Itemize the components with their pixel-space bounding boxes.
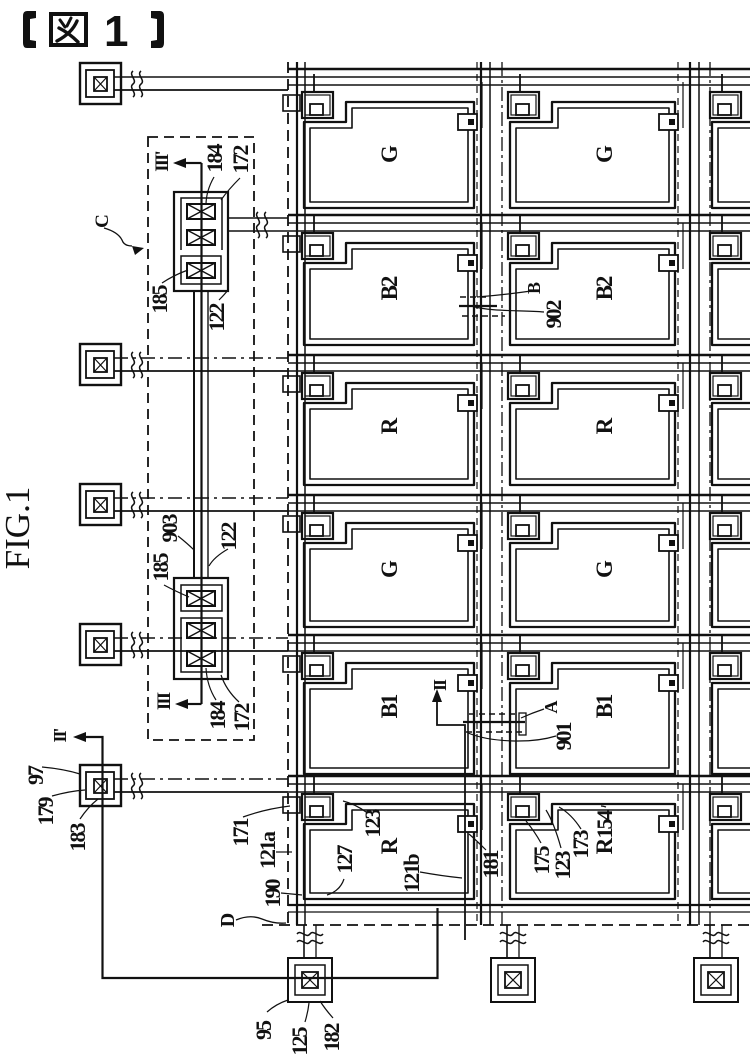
- gate pad (left, y=84): [80, 63, 121, 104]
- pixel colour label R row 3 col 2: [592, 417, 617, 434]
- label 185 (bottom structure): [148, 553, 189, 598]
- svg-text:C: C: [92, 215, 113, 228]
- pixel electrode 190 row 1 col 2 (G): [510, 102, 675, 208]
- TFT row 6 col 1: [283, 776, 333, 820]
- label II': [50, 728, 70, 742]
- pixel electrode 190 row 2 col 3 (B2): [712, 243, 750, 345]
- pixel colour label B1 row 5 col 2: [592, 694, 617, 718]
- TFT row 2 col 3: [710, 215, 741, 259]
- section line through column 2 (dash-dot): [501, 62, 503, 925]
- pixel colour label G row 1 col 1: [377, 145, 402, 163]
- data pad at x=310: [288, 958, 332, 1002]
- gate pad (left, y=786): [80, 765, 121, 806]
- label C: [92, 215, 144, 255]
- label 154: [592, 806, 617, 839]
- pixel colour label B1 row 5 col 1: [377, 694, 402, 718]
- label 902: [471, 300, 566, 329]
- svg-text:95: 95: [251, 1020, 276, 1040]
- svg-text:R: R: [592, 837, 617, 854]
- section line through column 3 (dash-dot): [709, 62, 711, 925]
- break symbol on lead y=786: [132, 773, 143, 799]
- TFT row 5 col 1: [283, 635, 333, 679]
- bottom gate band: [288, 905, 750, 912]
- figure title 図1: [23, 7, 164, 56]
- svg-text:172: 172: [228, 145, 253, 174]
- drain contact hole row 1 col 2: [659, 82, 683, 130]
- svg-text:D: D: [217, 913, 239, 927]
- gate pad (left, y=645): [80, 624, 121, 665]
- svg-text:173: 173: [568, 830, 593, 859]
- label III': [152, 152, 173, 172]
- label 123 (col2): [546, 810, 575, 880]
- label 182: [319, 1001, 344, 1052]
- pixel colour label R row 3 col 1: [377, 417, 402, 434]
- svg-text:185: 185: [148, 553, 173, 582]
- data lead stem for pad x=513: [507, 925, 519, 958]
- drain contact hole row 6 col 1: [458, 784, 482, 832]
- data lead stem for pad x=716: [710, 925, 722, 958]
- pixel-edge dotted line col 1: [476, 62, 478, 925]
- pixel colour label B2 row 2 col 2: [592, 276, 617, 300]
- label 172 (bottom): [221, 675, 254, 732]
- TFT row 3 col 1: [283, 355, 333, 399]
- data line 171 pair (left): [297, 62, 305, 925]
- svg-text:179: 179: [33, 797, 58, 826]
- TFT row 1 col 3: [710, 74, 741, 118]
- capacitor contact 184 box 3 (top structure): [187, 263, 215, 278]
- TFT row 5 col 3: [710, 635, 741, 679]
- gate line 123 row band 3: [288, 355, 750, 371]
- svg-text:122: 122: [204, 303, 229, 332]
- gate lead from pad y=786: [114, 779, 288, 792]
- section line III-III': [173, 158, 202, 709]
- region C boundary (dashed): [148, 137, 254, 740]
- storage capacitor structure (top, region C): [174, 192, 228, 291]
- TFT row 2 col 1: [283, 215, 333, 259]
- capacitor contact 184 box 3 (bottom structure): [187, 651, 215, 666]
- label 184 (bottom): [205, 668, 230, 730]
- pixel electrode 190 row 6 col 3 (R): [712, 804, 750, 899]
- svg-text:97: 97: [23, 765, 48, 785]
- pixel colour label R row 6 col 1: [377, 837, 402, 854]
- TFT row 4 col 2: [508, 495, 539, 539]
- label III: [154, 692, 175, 710]
- TFT row 2 col 2: [508, 215, 539, 259]
- gate line 122 row band 2: [288, 215, 750, 231]
- break symbol y=225: [257, 212, 268, 238]
- TFT row 3 col 3: [710, 355, 741, 399]
- label II: [430, 679, 450, 691]
- svg-text:121a: 121a: [255, 831, 280, 869]
- svg-text:1: 1: [104, 7, 128, 56]
- TFT row 4 col 1: [283, 495, 333, 539]
- pixel electrode 190 row 2 col 1 (B2): [304, 243, 474, 345]
- storage line 122 between structures: [194, 291, 208, 578]
- svg-text:R: R: [592, 417, 617, 434]
- label 97: [23, 765, 80, 785]
- capacitor contact 184 box 2 (bottom structure): [187, 623, 215, 638]
- label 121b: [399, 854, 462, 893]
- pixel electrode 190 row 2 col 2 (B2): [510, 243, 675, 345]
- section line II-II': [73, 689, 465, 978]
- pixel electrode 190 row 3 col 3 (R): [712, 383, 750, 485]
- gate pad (left, y=505): [80, 484, 121, 525]
- svg-text:B2: B2: [592, 276, 617, 300]
- svg-text:R: R: [377, 837, 402, 854]
- svg-text:182: 182: [319, 1023, 344, 1052]
- label 172 (top): [221, 145, 253, 201]
- break symbol on lead y=645: [132, 632, 143, 658]
- label 183: [65, 799, 98, 852]
- svg-text:183: 183: [65, 823, 90, 852]
- pixel electrode 190 row 4 col 3 (G): [712, 523, 750, 627]
- label 179: [33, 790, 85, 826]
- svg-text:184: 184: [202, 144, 227, 173]
- FIG.1 caption: [0, 487, 37, 570]
- pixel electrode 190 row 3 col 1 (R): [304, 383, 474, 485]
- break symbol above pad x=716: [703, 933, 729, 944]
- storage branch 902 stubs: [459, 297, 505, 316]
- svg-text:III': III': [152, 152, 173, 172]
- svg-text:172: 172: [229, 703, 254, 732]
- svg-text:FIG.1: FIG.1: [0, 487, 37, 570]
- break symbol on lead y=505: [132, 492, 143, 518]
- TFT row 1 col 1: [283, 74, 333, 118]
- pixel colour label G row 4 col 2: [592, 560, 617, 578]
- gate line 125 row band 5: [288, 635, 750, 651]
- drain contact hole row 4 col 2: [659, 503, 683, 551]
- data pad at x=513: [491, 958, 535, 1002]
- drain contact hole row 1 col 1: [458, 82, 482, 130]
- gate line 126 row band 6: [288, 776, 750, 792]
- storage capacitor structure (bottom, region C): [174, 578, 228, 679]
- pixel electrode 190 row 5 col 3 (B1): [712, 663, 750, 774]
- label 127: [327, 845, 357, 896]
- pixel electrode 190 row 1 col 1 (G): [304, 102, 474, 208]
- TFT row 4 col 3: [710, 495, 741, 539]
- label 190: [260, 879, 302, 908]
- label 95: [251, 1000, 288, 1040]
- gate lead from pad y=645: [114, 638, 288, 651]
- label 173: [559, 807, 593, 859]
- break symbol above pad x=310: [297, 933, 323, 944]
- label A: [521, 701, 561, 719]
- drain contact hole row 4 col 1: [458, 503, 482, 551]
- break symbol on lead y=84: [132, 71, 143, 97]
- pixel-edge dotted line col 2: [677, 62, 679, 925]
- pixel electrode 190 row 1 col 3 (G): [712, 102, 750, 208]
- pixel electrode 190 row 6 col 2 (R): [510, 804, 675, 899]
- drain contact hole row 3 col 2: [659, 363, 683, 411]
- drain contact hole row 6 col 2: [659, 784, 683, 832]
- label B: [477, 282, 544, 297]
- svg-text:184: 184: [205, 701, 230, 730]
- svg-text:185: 185: [147, 285, 172, 314]
- label 175: [526, 821, 554, 875]
- svg-text:G: G: [592, 560, 617, 578]
- gate pad (left, y=365): [80, 344, 121, 385]
- svg-text:903: 903: [157, 514, 182, 543]
- pixel colour label G row 1 col 2: [592, 145, 617, 163]
- label 121a: [255, 831, 292, 869]
- label D: [217, 913, 286, 927]
- svg-text:III: III: [154, 692, 175, 710]
- svg-text:B1: B1: [377, 694, 402, 718]
- storage branch 901 stubs: [463, 713, 526, 735]
- svg-text:G: G: [592, 145, 617, 163]
- TFT row 5 col 2: [508, 635, 539, 679]
- pixel colour label B2 row 2 col 1: [377, 276, 402, 300]
- gate lead from pad y=84: [114, 77, 288, 90]
- gate lead from pad y=365: [114, 358, 288, 371]
- label 185 (top structure): [147, 270, 188, 314]
- svg-text:G: G: [377, 145, 402, 163]
- drain contact hole row 3 col 1: [458, 363, 482, 411]
- svg-text:154: 154: [592, 810, 617, 839]
- capacitor contact 184 box 2 (top structure): [187, 230, 215, 245]
- label 122 (bottom structure): [209, 522, 241, 567]
- svg-text:127: 127: [332, 845, 357, 874]
- drain contact hole row 2 col 2: [659, 223, 683, 271]
- TFT row 1 col 2: [508, 74, 539, 118]
- TFT row 3 col 2: [508, 355, 539, 399]
- drain contact hole row 5 col 2: [659, 643, 683, 691]
- data line pair between column 1 and 2: [481, 62, 490, 925]
- label 903: [157, 514, 194, 551]
- svg-text:123: 123: [360, 809, 385, 838]
- pixel electrode 190 row 5 col 2 (B1): [510, 663, 675, 774]
- region D boundary (dashed): [262, 62, 750, 925]
- pixel electrode 190 row 6 col 1 (R): [304, 804, 474, 899]
- capacitor contact 184 box 1 (top structure): [187, 204, 215, 219]
- TFT row 6 col 3: [710, 776, 741, 820]
- svg-text:125: 125: [287, 1027, 312, 1056]
- storage lead from capacitor to pixel area y=225: [228, 218, 288, 231]
- svg-text:902: 902: [541, 300, 566, 329]
- data line pair between column 2 and 3: [690, 62, 699, 925]
- svg-text:R: R: [377, 417, 402, 434]
- label 171: [228, 806, 290, 847]
- pixel electrode 190 row 4 col 1 (G): [304, 523, 474, 627]
- svg-text:II': II': [50, 728, 70, 742]
- gate lead from pad y=505: [114, 498, 288, 511]
- pixel colour label G row 4 col 1: [377, 560, 402, 578]
- break symbol above pad x=513: [500, 933, 526, 944]
- pixel colour label R row 6 col 2: [592, 837, 617, 854]
- gate line 121 row band 1: [288, 69, 750, 85]
- gate line 124 row band 4: [288, 495, 750, 511]
- break symbol on lead y=365: [132, 352, 143, 378]
- pixel electrode 190 row 3 col 2 (R): [510, 383, 675, 485]
- svg-text:B2: B2: [377, 276, 402, 300]
- drain contact hole row 5 col 1: [458, 643, 482, 691]
- capacitor contact 184 box 1 (bottom structure): [187, 591, 215, 606]
- label 181: [469, 834, 503, 879]
- svg-text:B1: B1: [592, 694, 617, 718]
- label 123 (col1): [343, 801, 385, 838]
- svg-text:G: G: [377, 560, 402, 578]
- TFT row 6 col 2: [508, 776, 539, 820]
- data lead stem for pad x=310: [304, 925, 316, 958]
- svg-text:122: 122: [216, 522, 241, 551]
- label 184 (top): [202, 144, 227, 206]
- label 122 (top structure): [204, 290, 229, 332]
- label 125: [287, 1003, 312, 1056]
- data pad at x=716: [694, 958, 738, 1002]
- label 901: [468, 723, 576, 751]
- svg-text:181: 181: [478, 851, 503, 879]
- pixel electrode 190 row 5 col 1 (B1): [304, 663, 474, 774]
- pixel electrode 190 row 4 col 2 (G): [510, 523, 675, 627]
- svg-text:171: 171: [228, 819, 253, 847]
- svg-text:121b: 121b: [399, 854, 424, 893]
- drain contact hole row 2 col 1: [458, 223, 482, 271]
